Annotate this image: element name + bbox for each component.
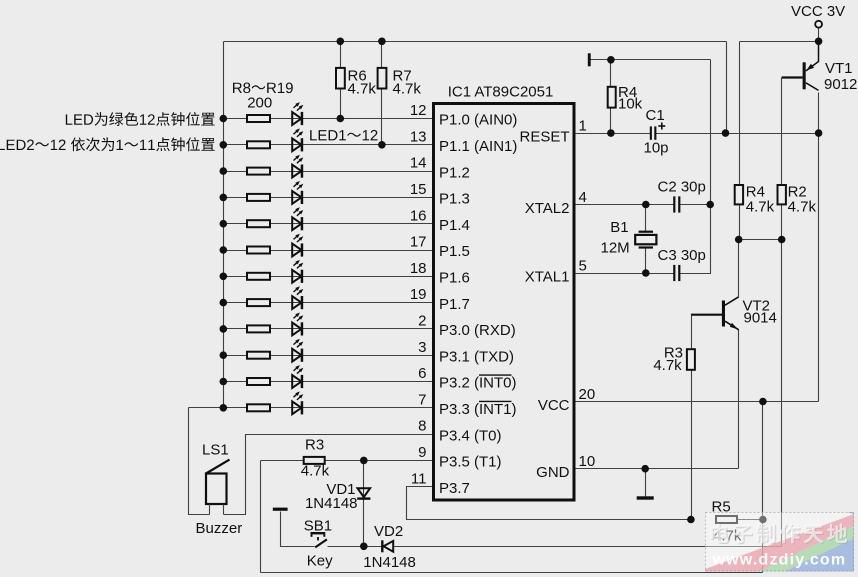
wire gnd symbol stub <box>645 469 647 497</box>
diode VD1 1N4148 <box>357 488 370 500</box>
svg-text:4.7k: 4.7k <box>653 357 682 374</box>
resistor R3 4.7k (VT2 base) <box>687 349 695 370</box>
wire R3 top stub <box>691 315 693 350</box>
wire VCC pin 20 <box>575 401 819 403</box>
svg-text:14: 14 <box>410 155 427 172</box>
svg-text:2: 2 <box>418 313 426 330</box>
wire LED row pin 18 <box>224 276 434 278</box>
svg-text:VT1: VT1 <box>825 60 853 77</box>
wire LED row pin 16 <box>224 223 434 225</box>
LED9 row 2 <box>292 313 303 336</box>
ground symbol <box>637 496 654 499</box>
svg-text:RESET: RESET <box>519 128 569 145</box>
node bus row 13 <box>220 141 228 149</box>
resistor R11 200 row 15 <box>247 194 270 201</box>
svg-text:4.7k: 4.7k <box>746 199 775 216</box>
svg-text:11: 11 <box>411 470 427 487</box>
wire VCC to R4 segment <box>740 41 819 43</box>
node bus row 12 <box>220 115 228 123</box>
node bus row 15 <box>220 194 228 202</box>
overline INT0 <box>479 374 512 376</box>
svg-text:P1.4: P1.4 <box>439 217 470 234</box>
svg-text:P3.0 (RXD): P3.0 (RXD) <box>439 322 516 339</box>
node bus row 7 <box>220 404 228 412</box>
wire top VCC rail (LED supply) <box>224 41 727 43</box>
node R2 bottom <box>778 236 786 244</box>
wire bottom rail <box>261 572 763 574</box>
node R7 to pin13 <box>378 141 386 149</box>
svg-text:XTAL2: XTAL2 <box>525 200 570 217</box>
svg-text:C1: C1 <box>646 107 665 124</box>
svg-text:P3.7: P3.7 <box>439 480 470 497</box>
wire pin7 row extension to buzzer <box>189 407 224 409</box>
resistor R15 200 row 19 <box>247 299 270 306</box>
svg-text:LS1: LS1 <box>202 442 229 459</box>
buzzer LS1 <box>206 460 230 515</box>
resistor R14 200 row 18 <box>247 273 270 280</box>
wire LED row pin 6 <box>224 381 434 383</box>
node bus row 16 <box>220 220 228 228</box>
svg-text:1N4148: 1N4148 <box>305 495 358 512</box>
wire key line left <box>281 512 315 547</box>
node R5-right <box>759 516 767 524</box>
node xtal2-crystal <box>642 201 650 209</box>
wire R3 bottom stub <box>691 370 693 520</box>
wire VD1 branch <box>363 461 365 547</box>
svg-text:12: 12 <box>410 102 427 119</box>
LED5 row 16 <box>292 207 303 230</box>
terminal stub SB1 <box>273 508 288 511</box>
svg-text:4.7k: 4.7k <box>393 80 422 97</box>
wire key line to VD2 <box>364 546 382 548</box>
wire pin9 left drop <box>260 461 262 573</box>
node P3.7-R3 <box>687 516 695 524</box>
svg-text:P3.2 (INT0): P3.2 (INT0) <box>439 375 517 392</box>
node pin20-R5net <box>759 398 767 406</box>
crystal B1 12M <box>635 231 656 249</box>
svg-text:XTAL1: XTAL1 <box>525 268 570 285</box>
wire R4-R2 bottom link <box>740 239 782 241</box>
svg-text:19: 19 <box>410 286 427 303</box>
resistor R6 4.7k <box>336 68 345 89</box>
node bus row 2 <box>220 325 228 333</box>
wire LED row pin 12 <box>224 118 434 120</box>
annotation row2 (CJK) <box>0 137 215 151</box>
node top net-R4 <box>607 56 615 64</box>
svg-text:17: 17 <box>410 234 427 251</box>
svg-text:6: 6 <box>418 365 426 382</box>
svg-text:8: 8 <box>418 418 426 435</box>
resistor R12 200 row 16 <box>247 220 270 227</box>
resistor R10 200 row 14 <box>247 168 270 175</box>
wire VCC rail drop to reset net <box>726 42 728 134</box>
wire LED row pin 2 <box>224 328 434 330</box>
wire R4 4.7k top <box>739 42 741 186</box>
wire GND pin 10 <box>575 468 739 470</box>
svg-text:P1.6: P1.6 <box>439 270 470 287</box>
LED3 row 14 <box>292 155 303 178</box>
svg-text:12M: 12M <box>601 239 630 256</box>
resistor R4 10k <box>608 87 616 108</box>
wire R4 10k bottom stub <box>610 108 612 134</box>
transistor VT2 9014 <box>691 297 739 330</box>
wire VT2 emitter drop <box>738 330 740 469</box>
svg-text:9014: 9014 <box>744 310 777 327</box>
svg-text:VCC: VCC <box>538 397 570 414</box>
svg-text:P3.5 (T1): P3.5 (T1) <box>439 454 502 471</box>
wire XTAL1 pin 5 <box>575 273 674 275</box>
wire reset top net <box>591 59 711 61</box>
wire VCC terminal drop <box>818 28 820 42</box>
LED6 row 17 <box>292 234 303 257</box>
svg-text:13: 13 <box>410 128 427 145</box>
node VCC terminal junction <box>815 38 823 46</box>
wire LED row pin 19 <box>224 302 434 304</box>
svg-text:B1: B1 <box>610 219 628 236</box>
svg-text:P1.2: P1.2 <box>439 164 470 181</box>
node rail-R7 <box>378 38 386 46</box>
LED12 row 7 <box>292 391 303 414</box>
svg-text:10p: 10p <box>644 139 669 156</box>
svg-text:200: 200 <box>247 94 272 111</box>
node bus row 17 <box>220 246 228 254</box>
resistor R5 4.7k <box>716 516 737 523</box>
resistor R4b 4.7k <box>735 185 743 204</box>
wire LED row pin 14 <box>224 171 434 173</box>
LED2 row 13 <box>292 128 303 151</box>
wire key line mid <box>328 546 364 548</box>
wire VD2 to R2 branch <box>394 546 782 548</box>
wire C2 right link <box>681 205 711 274</box>
terminal stub top net <box>588 53 591 66</box>
wire XTAL2 pin 4 <box>575 204 674 206</box>
capacitor C2 30p <box>673 196 680 212</box>
resistor R16 200 row 2 <box>247 325 270 332</box>
svg-text:C3 30p: C3 30p <box>658 247 706 264</box>
LED10 row 3 <box>292 339 303 362</box>
switch SB1 Key <box>311 532 327 547</box>
svg-text:GND: GND <box>536 464 570 481</box>
LED11 row 6 <box>292 365 303 388</box>
wire RESET pin 1 <box>575 133 651 135</box>
resistor R13 200 row 17 <box>247 247 270 254</box>
C1 plus sign <box>658 123 665 130</box>
svg-text:9012: 9012 <box>824 76 857 93</box>
wire LED row pin 15 <box>224 197 434 199</box>
svg-text:Key: Key <box>307 553 333 570</box>
wire LED row pin 13 <box>224 144 434 146</box>
resistor R18 200 row 6 <box>247 378 270 385</box>
svg-text:P1.7: P1.7 <box>439 296 470 313</box>
node bus row 6 <box>220 378 228 386</box>
svg-text:Buzzer: Buzzer <box>196 520 243 537</box>
svg-text:16: 16 <box>410 207 427 224</box>
node bus row 18 <box>220 273 228 281</box>
capacitor C3 30p <box>673 265 680 281</box>
svg-text:1: 1 <box>579 118 587 135</box>
svg-text:4.7k: 4.7k <box>348 80 377 97</box>
wire LED row pin 17 <box>224 250 434 252</box>
svg-text:P3.1 (TXD): P3.1 (TXD) <box>439 348 514 365</box>
svg-text:SB1: SB1 <box>304 518 332 535</box>
node key-VD1 <box>360 543 368 551</box>
wire VT2 collector <box>738 240 740 297</box>
wire crystal top stub <box>645 205 647 232</box>
node reset-R4 <box>607 129 615 137</box>
wire C1 right to VT1 collector node <box>656 133 819 135</box>
wire buzzer left lead <box>189 408 210 515</box>
svg-text:4.7k: 4.7k <box>788 199 817 216</box>
svg-text:20: 20 <box>579 386 596 403</box>
node bus row 19 <box>220 299 228 307</box>
wire R4 10k top stub <box>610 60 612 87</box>
node reset-VT1 collector <box>815 129 823 137</box>
node rail-R6 <box>337 38 345 46</box>
svg-text:P1.5: P1.5 <box>439 243 470 260</box>
node bus row 14 <box>220 167 228 175</box>
node gnd symbol <box>641 465 649 473</box>
svg-text:5: 5 <box>579 258 587 275</box>
LED7 row 18 <box>292 260 303 283</box>
wire pin 9 row <box>261 460 434 462</box>
node pin9-VD1 <box>360 457 368 465</box>
wire node drop right <box>762 402 764 573</box>
LED1 row 12 <box>292 102 303 125</box>
wire VT2 base <box>692 314 723 316</box>
wire LED row pin 3 <box>224 355 434 357</box>
wire R7 bottom stub <box>381 89 383 145</box>
wire R6 bottom stub <box>340 89 342 119</box>
svg-text:4: 4 <box>579 189 587 206</box>
label R8~R19 <box>233 83 293 94</box>
svg-text:7: 7 <box>418 391 426 408</box>
svg-text:P1.3: P1.3 <box>439 191 470 208</box>
wire R2 bottom branch <box>781 205 783 547</box>
wire crystal bottom stub <box>645 248 647 274</box>
svg-text:R3: R3 <box>305 437 324 454</box>
svg-text:10: 10 <box>579 453 596 470</box>
svg-text:IC1 AT89C2051: IC1 AT89C2051 <box>448 84 554 101</box>
wire VT1 collector drop <box>818 93 820 402</box>
node R4b bottom <box>735 236 743 244</box>
svg-text:1N4148: 1N4148 <box>363 554 416 571</box>
transistor VT1 9012 <box>782 41 819 90</box>
svg-text:15: 15 <box>410 181 427 198</box>
wire R5 to node <box>738 519 763 521</box>
label LED1~12 <box>310 130 377 141</box>
svg-text:3: 3 <box>418 339 426 356</box>
wire LED anode bus <box>223 42 225 408</box>
wire VT1 base link <box>781 78 783 186</box>
svg-text:VD2: VD2 <box>374 523 403 540</box>
svg-text:C2 30p: C2 30p <box>658 179 706 196</box>
wire R7 top stub <box>381 42 383 68</box>
resistor R3h 4.7k (pin9) <box>304 457 325 464</box>
node C2-gndnet <box>706 201 714 209</box>
node xtal1-crystal <box>642 269 650 277</box>
node bus row 3 <box>220 351 228 359</box>
LED8 row 19 <box>292 286 303 309</box>
svg-text:10k: 10k <box>618 96 643 113</box>
annotation row1 (CJK) <box>66 112 215 126</box>
capacitor C1 10p <box>650 126 657 139</box>
VCC terminal circle <box>815 21 822 28</box>
svg-text:9: 9 <box>418 444 426 461</box>
svg-text:18: 18 <box>410 260 427 277</box>
resistor R8 200 row 12 <box>247 115 270 122</box>
overline INT1 <box>479 400 512 402</box>
wire P3.7 pin 11 <box>407 487 691 520</box>
node R6 to pin12 <box>337 115 345 123</box>
svg-text:P3.3 (INT1): P3.3 (INT1) <box>439 401 517 418</box>
svg-text:P3.4 (T0): P3.4 (T0) <box>439 427 502 444</box>
resistor R7 4.7k <box>378 68 387 89</box>
node reset-VCCrail <box>722 129 730 137</box>
resistor R2 4.7k <box>778 185 786 204</box>
svg-text:www.dzdiy.com: www.dzdiy.com <box>712 552 847 569</box>
diode VD2 1N4148 <box>381 540 393 552</box>
wire R6 top stub <box>340 42 342 68</box>
wire buzzer right lead to pin 8 <box>224 435 434 515</box>
resistor R9 200 row 13 <box>247 141 270 148</box>
svg-text:VCC 3V: VCC 3V <box>791 3 845 20</box>
wire gnd net drop (C2/C3) <box>710 60 712 205</box>
resistor R17 200 row 3 <box>247 352 270 359</box>
watermark dzdiy.com <box>705 512 854 577</box>
wire LED row pin 7 <box>224 407 434 409</box>
IC U1 AT89C2051 box <box>434 104 575 501</box>
resistor R19 200 row 7 <box>247 404 270 411</box>
svg-text:4.7k: 4.7k <box>301 463 330 480</box>
svg-text:P1.0 (AIN0): P1.0 (AIN0) <box>439 112 517 129</box>
wire R4 4.7k bottom <box>739 205 741 240</box>
LED4 row 15 <box>292 181 303 204</box>
svg-text:P1.1 (AIN1): P1.1 (AIN1) <box>439 138 517 155</box>
